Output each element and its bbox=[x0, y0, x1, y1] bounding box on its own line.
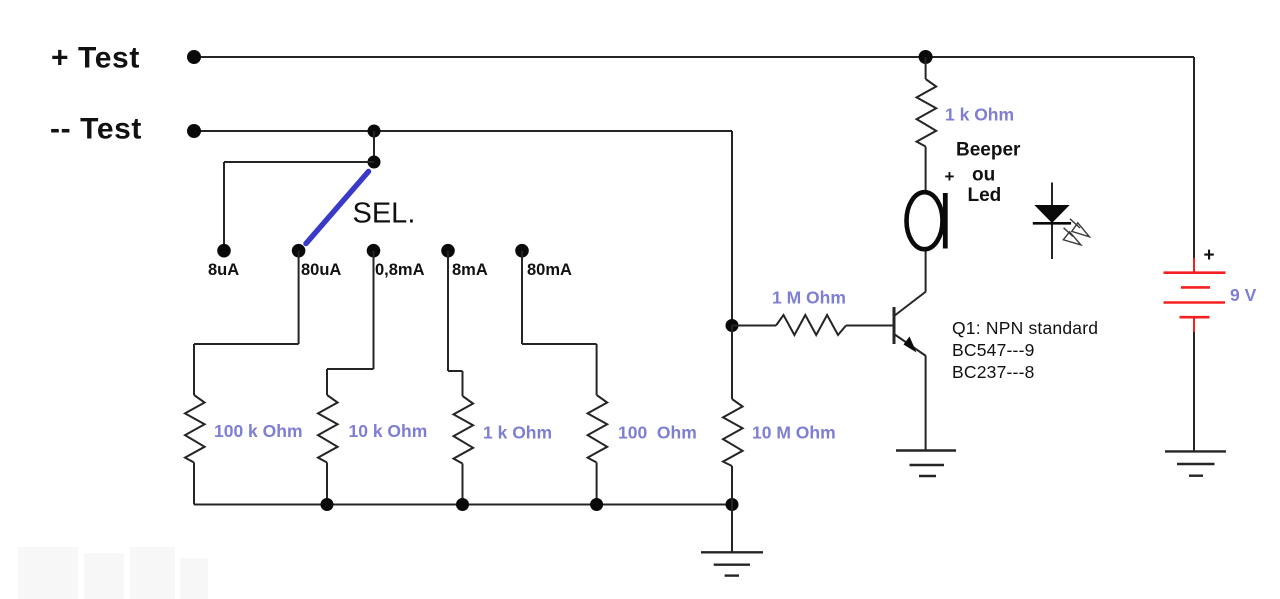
wire: battery minus to ground bbox=[1193, 332, 1195, 451]
label + Test bbox=[51, 42, 140, 75]
label 100 k Ohm bbox=[214, 421, 303, 441]
svg-text:+: + bbox=[1204, 245, 1215, 266]
label 1 M Ohm bbox=[772, 288, 846, 308]
node: selector contact 8mA bbox=[441, 244, 455, 258]
node: selector contact 8uA bbox=[217, 244, 231, 258]
svg-text:ou: ou bbox=[972, 165, 995, 186]
label 10 k Ohm bbox=[349, 421, 428, 441]
node: --Test terminal dot bbox=[187, 124, 201, 138]
wire: pivot to 8uA branch (horizontal then down) bbox=[224, 162, 374, 251]
svg-text:Beeper: Beeper bbox=[956, 140, 1021, 161]
node: selector contact 80uA bbox=[292, 244, 306, 258]
ground: battery ground symbol bbox=[1165, 451, 1226, 475]
beeper plus sign bbox=[945, 167, 955, 186]
wire: junction down to 10M top bbox=[731, 326, 733, 400]
resistor R1 100k zigzag bbox=[185, 395, 205, 463]
label Beeper ou Led bbox=[956, 140, 1021, 207]
svg-text:8mA: 8mA bbox=[452, 261, 488, 279]
label 80uA bbox=[301, 261, 341, 279]
resistor R7 1k (collector) zigzag bbox=[917, 57, 937, 147]
node: bus junction at R2 bbox=[321, 498, 334, 511]
label 100 Ohm bbox=[618, 423, 697, 443]
node: bus junction at R4 bbox=[590, 498, 603, 511]
wire: 1M right lead to base bbox=[846, 325, 893, 327]
wire: right vertical down to battery bbox=[1193, 57, 1195, 258]
svg-text:8uA: 8uA bbox=[208, 261, 239, 279]
svg-text:+: + bbox=[945, 167, 955, 186]
wire: bottom bus bbox=[194, 504, 732, 506]
ground: middle ground symbol bbox=[701, 552, 763, 575]
svg-text:100 k Ohm: 100 k Ohm bbox=[214, 421, 303, 441]
transistor Q1 bbox=[894, 292, 926, 357]
wire: --Test down right side vertical to base node bbox=[731, 131, 733, 326]
svg-text:-- Test: -- Test bbox=[50, 113, 142, 146]
svg-text:SEL.: SEL. bbox=[353, 198, 416, 230]
wire: junction down to selector pivot bbox=[373, 131, 375, 162]
ground: transistor emitter ground bbox=[896, 451, 956, 477]
wire: node to 1M resistor left lead bbox=[732, 325, 776, 327]
svg-text:Q1: NPN standard: Q1: NPN standard bbox=[952, 318, 1098, 338]
wire: R4 bottom to bus bbox=[596, 463, 598, 505]
wire: 80uA contact down-left to R1 top bbox=[194, 251, 299, 395]
node: bus junction at R3 bbox=[456, 498, 469, 511]
beeper LS1 (circle + bar) bbox=[907, 192, 946, 249]
LED D1 bbox=[1033, 183, 1071, 260]
node: --Test junction dot bbox=[368, 125, 381, 138]
wire: 8mA contact down-right to R3 top bbox=[448, 251, 463, 396]
label 80mA bbox=[527, 261, 572, 279]
wire: R1 bottom to bus bbox=[193, 463, 195, 505]
node: selector contact 0,8mA bbox=[367, 244, 381, 258]
label 8uA bbox=[208, 261, 239, 279]
wire: 1k bottom to beeper bbox=[925, 147, 927, 193]
wire: emitter down to ground bbox=[925, 356, 927, 451]
svg-text:80mA: 80mA bbox=[527, 261, 572, 279]
svg-text:BC237---8: BC237---8 bbox=[952, 362, 1035, 382]
svg-text:Led: Led bbox=[968, 185, 1002, 206]
node: top rail junction dot at 1k resistor bbox=[919, 50, 933, 64]
wire: 80mA contact down-right to R4 top bbox=[522, 251, 597, 395]
svg-text:BC547---9: BC547---9 bbox=[952, 340, 1035, 360]
faint watermark bottom left bbox=[18, 547, 208, 599]
svg-text:80uA: 80uA bbox=[301, 261, 341, 279]
svg-text:1 k Ohm: 1 k Ohm bbox=[483, 423, 552, 443]
node: base divider junction bbox=[726, 319, 739, 332]
wire: 0,8mA contact down-left to R2 top bbox=[327, 251, 374, 395]
label SEL. bbox=[353, 198, 416, 230]
wire: collector up to beeper bbox=[925, 251, 927, 292]
wire: --Test horizontal bbox=[194, 130, 732, 132]
label 1 k Ohm (collector) bbox=[945, 105, 1014, 125]
resistor R6 1M horizontal zigzag bbox=[776, 315, 846, 335]
wire: R3 bottom to bus bbox=[462, 464, 464, 505]
svg-text:1 M Ohm: 1 M Ohm bbox=[772, 288, 846, 308]
svg-text:9 V: 9 V bbox=[1230, 285, 1257, 305]
svg-text:+ Test: + Test bbox=[51, 42, 140, 75]
resistor R3 1k zigzag bbox=[454, 396, 474, 464]
node: +Test terminal dot bbox=[187, 50, 201, 64]
wire: +Test rail top horizontal bbox=[194, 56, 1194, 58]
svg-text:100 Ohm: 100 Ohm bbox=[618, 423, 697, 443]
label 1 k Ohm bbox=[483, 423, 552, 443]
battery plus sign bbox=[1204, 245, 1215, 266]
node: selector contact 80mA bbox=[515, 244, 529, 258]
wire: R2 bottom to bus bbox=[326, 463, 328, 505]
battery BT1 9V bbox=[1164, 258, 1226, 332]
resistor R4 100 Ohm zigzag bbox=[588, 395, 608, 463]
node: selector pivot dot bbox=[368, 156, 381, 169]
label 0,8mA bbox=[375, 261, 425, 279]
svg-text:0,8mA: 0,8mA bbox=[375, 261, 425, 279]
node: bus junction at 10M / ground bbox=[726, 498, 739, 511]
label -- Test bbox=[50, 113, 142, 146]
svg-text:1 k Ohm: 1 k Ohm bbox=[945, 105, 1014, 125]
wire: 10M bottom through bus to ground bbox=[731, 466, 733, 552]
resistor R5 10M zigzag bbox=[723, 399, 743, 466]
LED emission arrows bbox=[1063, 219, 1089, 245]
resistor R2 10k zigzag bbox=[318, 395, 338, 463]
svg-text:10 M Ohm: 10 M Ohm bbox=[752, 423, 836, 443]
switch SEL. blue wiper bbox=[306, 172, 369, 244]
label 9 V bbox=[1230, 285, 1257, 305]
label 8mA bbox=[452, 261, 488, 279]
svg-text:10 k Ohm: 10 k Ohm bbox=[349, 421, 428, 441]
label 10 M Ohm bbox=[752, 423, 836, 443]
label Q1 text block bbox=[952, 318, 1098, 382]
